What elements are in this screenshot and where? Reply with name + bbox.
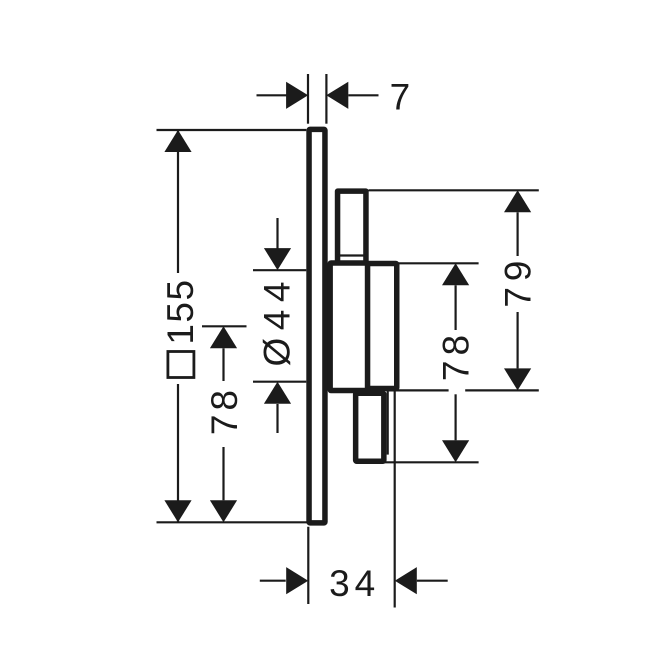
svg-text:7: 7 — [390, 77, 411, 118]
svg-text:Ø44: Ø44 — [257, 274, 298, 366]
svg-text:79: 79 — [497, 255, 538, 308]
svg-text:78: 78 — [204, 386, 245, 435]
svg-text:155: 155 — [160, 278, 201, 344]
svg-text:78: 78 — [436, 330, 477, 381]
svg-text:34: 34 — [329, 563, 380, 604]
